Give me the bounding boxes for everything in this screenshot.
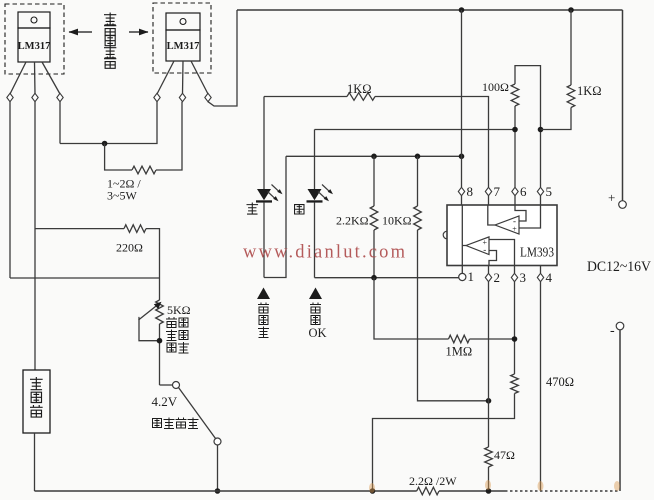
wire 220ohm to pot column [146, 229, 160, 300]
resistor 470ohm [511, 374, 519, 394]
svg-text:5KΩ: 5KΩ [167, 303, 191, 317]
switch contact 2 [214, 438, 221, 445]
wire 1K right top [570, 10, 572, 85]
wire U1 pin2 down to battery [34, 102, 36, 370]
U2 pin 2 terminal [179, 93, 185, 101]
U1 leads with pin terminals [10, 62, 60, 94]
svg-text:www.dianlut.com: www.dianlut.com [243, 243, 406, 263]
pin 3 stub [514, 266, 516, 274]
marker charging (solid triangle) [257, 288, 270, 300]
wire 10K bottom down [418, 230, 487, 401]
node 2.2K top [371, 154, 377, 160]
node 100ohm/green rail [512, 127, 518, 133]
mid rail with 1K to pin7 [264, 96, 347, 98]
svg-text:2.2KΩ: 2.2KΩ [336, 214, 369, 228]
svg-text:3: 3 [520, 270, 527, 285]
pin 4 terminal [537, 273, 543, 281]
VCC rail to comparator [286, 155, 462, 157]
wire U1pin3 to U2pin1 [60, 102, 157, 144]
svg-text:1KΩ: 1KΩ [577, 84, 602, 98]
pin 6 internal step to inverting input [515, 205, 526, 221]
pin 5 terminal [537, 187, 543, 195]
node 47ohm/bus [486, 488, 492, 494]
top supply bus [237, 9, 623, 11]
wire top bus down to pin 8 [461, 10, 463, 187]
pin 1 terminal [459, 273, 466, 280]
resistor 1K right [567, 85, 575, 108]
svg-text:10KΩ: 10KΩ [382, 214, 412, 228]
junction node on 143 rail [102, 141, 108, 147]
comparator U3 LM393 body [443, 205, 557, 266]
label green [295, 205, 304, 214]
arrow pointing right to U2 [129, 31, 148, 33]
node rail/pin8 [459, 154, 465, 160]
pin 3 terminal [511, 273, 517, 281]
wire U2 pin3 to top bus [208, 10, 237, 106]
battery label (vertical) [30, 377, 43, 417]
node 2.2K/pin1 rail [371, 275, 377, 281]
svg-text:1MΩ: 1MΩ [446, 345, 473, 359]
svg-text:220Ω: 220Ω [116, 241, 143, 255]
label red [247, 203, 259, 215]
svg-text:+: + [512, 225, 517, 234]
svg-text:47Ω: 47Ω [494, 448, 515, 462]
switch voltage set: stub [160, 384, 173, 386]
annotation heatsink text [104, 13, 116, 69]
svg-text:8: 8 [467, 184, 474, 199]
node 470ohm return/bus [370, 488, 376, 494]
wire 2.2K column upper [373, 156, 375, 206]
svg-text:5: 5 [546, 184, 553, 199]
svg-text:LM317: LM317 [18, 41, 51, 52]
svg-text:470Ω: 470Ω [546, 375, 574, 389]
resistor 47ohm [485, 447, 493, 467]
node pin5 column / 1K bottom rail [538, 127, 544, 133]
resistor 1K (top middle) [347, 93, 375, 101]
label multi-turn precision resistor [166, 317, 189, 353]
svg-text:1KΩ: 1KΩ [347, 82, 372, 96]
regulator U2 LM317 [166, 13, 200, 61]
svg-text:6: 6 [520, 184, 527, 199]
pin stubs to box top [462, 196, 541, 205]
wire pin 4 column down to bus [540, 282, 542, 491]
label voltage setting [153, 418, 199, 429]
pin 8 terminal [458, 187, 464, 195]
pin 4 stub inside [540, 266, 542, 274]
wire 47ohm to bus [488, 467, 490, 491]
label charge OK [309, 303, 327, 341]
svg-text:1: 1 [468, 269, 475, 284]
wire LED green cathode down [314, 202, 316, 278]
svg-text:4.2V: 4.2V [152, 394, 178, 409]
label charging [258, 303, 269, 338]
node 1M/pin3 [512, 336, 518, 342]
svg-text:OK: OK [309, 326, 327, 340]
svg-text:100Ω: 100Ω [482, 80, 509, 94]
wire 1M feedback row [374, 278, 449, 339]
switch contact 1 [173, 382, 180, 389]
resistor 100ohm [511, 84, 519, 106]
svg-text:2: 2 [494, 270, 501, 285]
op-amp B output through box to pins 8/1 [462, 205, 466, 273]
op-amp A (top) [495, 216, 519, 234]
svg-text:7: 7 [494, 184, 501, 199]
pin 5 internal to non-inverting input [519, 205, 541, 228]
op-amp B non-inverting from pin 3 [489, 240, 515, 266]
bottom bus right segment (in series with 2.2ohm) [439, 490, 505, 492]
wire switch to bottom bus [217, 445, 219, 491]
resistor 1~2ohm 3~5W [132, 166, 156, 174]
pin 6 terminal [512, 187, 518, 195]
wire U1 pin1 down left side [9, 102, 11, 278]
wire 1K to pin 7 [375, 97, 489, 188]
wire LED green anode from y130 rail [314, 130, 316, 190]
pin 7 terminal [485, 187, 491, 195]
wire 470ohm return to bus [373, 394, 515, 492]
pot wiper loop to bottom terminal [139, 318, 160, 341]
+ output terminal [619, 201, 627, 209]
wire U1 pin1 rail to pot [10, 277, 160, 279]
rail y130 to 100ohm bottom [315, 129, 516, 131]
bottom bus dotted worn segment [505, 490, 620, 492]
U2 pin 3 terminal [205, 93, 211, 101]
U1 pin 3 terminal [57, 93, 63, 101]
worn orange smudges on bus [485, 480, 491, 490]
wire pot bottom [159, 324, 161, 385]
op-amp B (bottom) [466, 237, 489, 255]
node 10K to pin2 column [486, 398, 492, 404]
potentiometer 5K body [156, 300, 164, 324]
LED green D2 [307, 185, 334, 203]
resistor 2.2K [370, 206, 378, 230]
svg-text:+: + [608, 190, 615, 205]
wire 100ohm bracket to pin5 column [515, 66, 541, 188]
svg-text:3~5W: 3~5W [107, 189, 137, 203]
switch blade [179, 388, 216, 439]
heatsink dashed box around U2 [153, 3, 211, 73]
LED red D1 [256, 185, 283, 203]
svg-text:-: - [483, 245, 486, 255]
wire pin 2 column down [488, 282, 490, 447]
node top bus / pin8 drop [459, 7, 465, 13]
regulator U1 LM317 [18, 12, 51, 62]
wire battery minus to bus [34, 433, 36, 491]
svg-text:DC12~16V: DC12~16V [587, 259, 651, 275]
U1 pin 1 terminal [7, 93, 13, 101]
svg-text:-: - [610, 324, 615, 339]
U1 pin 2 terminal [32, 93, 38, 101]
resistor 10K [414, 206, 422, 230]
heatsink dashed box around U1 [5, 4, 64, 74]
svg-text:LM317: LM317 [167, 41, 200, 52]
node 10K top [415, 154, 421, 160]
wire LED red cathode down [263, 202, 265, 277]
wire - terminal down to bottom bus [619, 330, 621, 491]
wire U1 pin3 down [59, 102, 61, 144]
resistor 2.2ohm 2W in bus [417, 487, 439, 495]
junction pot bottom/wiper [157, 338, 163, 344]
node top bus / 1K right [568, 7, 574, 13]
svg-text:2.2Ω /2W: 2.2Ω /2W [409, 474, 457, 488]
pin 2 stub [488, 266, 490, 274]
lithium battery box [23, 370, 50, 433]
wire 10K column upper [417, 156, 419, 206]
wire down to resistor 1-2ohm [105, 144, 132, 171]
op-amp B inverting step to pin 2 [489, 251, 497, 266]
U2 leads [157, 61, 208, 94]
wire pin 3 column down [514, 282, 516, 374]
wire red cathode right and up to VCC rail [264, 156, 286, 277]
resistor 220ohm [124, 225, 146, 233]
pot wiper arrow [139, 305, 159, 321]
arrow pointing left to U1 [69, 31, 92, 33]
wire right side down to + terminal [622, 10, 624, 201]
wire 1M to pin3 column [470, 338, 515, 340]
U2 pin 1 terminal [154, 93, 160, 101]
pin 2 terminal [485, 273, 491, 281]
bottom ground bus [35, 490, 417, 492]
marker charge OK (solid triangle) [309, 288, 322, 300]
wire 1K right bottom to pin5 node [541, 108, 572, 130]
op-amp A output to pin 7 [488, 205, 495, 225]
wire 2.2K bottom to pin1 rail [373, 230, 375, 278]
svg-text:4: 4 [546, 270, 553, 285]
wire resistor to U2 pin2 [156, 102, 182, 170]
svg-text:LM393: LM393 [520, 245, 554, 260]
resistor 1M [449, 335, 470, 343]
- output terminal [616, 322, 624, 330]
wire LED red anode from 1K rail [263, 97, 265, 190]
wire battery tap to 220ohm [35, 228, 124, 230]
wire 100ohm bottom to rail y130 and pin 6 [514, 106, 516, 187]
junction switch/bus [215, 488, 221, 494]
green cathode rail to LM393 pin 1 [315, 277, 460, 279]
